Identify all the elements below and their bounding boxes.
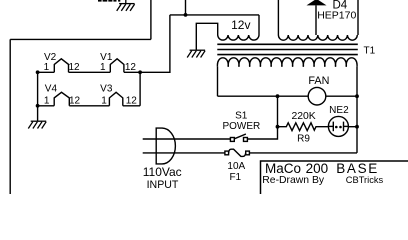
svg-text:V4: V4 [45,84,58,95]
tube heater V3 [109,92,122,106]
wire heater supply horizontal [170,14,259,16]
wire heater top row [38,71,141,73]
junction node at (357,126.7) [355,125,359,129]
wire heater bottom row [38,105,141,107]
svg-text:12: 12 [126,95,138,106]
title box [261,161,408,194]
wire riser to heater right node [140,15,170,72]
wire heater right vertical [139,72,141,106]
svg-text:1: 1 [44,95,50,106]
wire riser to top edge [150,0,152,39]
wire primary right vertical [356,67,358,153]
tube heater V1 [110,59,124,73]
wire fan row right [326,95,357,97]
svg-text:FAN: FAN [308,75,329,87]
ground symbol G3 [187,50,205,57]
svg-text:10A: 10A [227,161,245,172]
svg-text:V3: V3 [100,84,113,95]
svg-text:12v: 12v [231,18,250,32]
wire left vertical bus [9,39,11,194]
wire dropper x277.5 [277,96,279,127]
wire top-left horizontal [10,38,151,40]
svg-text:1: 1 [100,62,106,73]
transformer T1 HV secondary winding [278,0,358,40]
svg-text:POWER: POWER [222,121,260,132]
svg-text:R9: R9 [297,134,310,145]
plug P1 110Vac [156,128,175,164]
svg-text:Re-Drawn By: Re-Drawn By [262,175,325,186]
junction node at (37.6,72.3) [36,70,40,74]
svg-text:INPUT: INPUT [147,179,179,191]
ground symbol G2 [28,121,46,128]
svg-text:S1: S1 [235,110,248,121]
junction node at (185.5,14.9) [184,13,188,17]
svg-text:12: 12 [125,62,137,73]
wire 12v winding left to ground [196,23,217,50]
fuse F1 [143,149,357,156]
tube heater V4 [54,92,69,106]
switch S1 [143,127,278,142]
resistor R9 220K [278,123,329,131]
svg-text:CBTricks: CBTricks [346,175,384,185]
fan motor circle [308,87,326,105]
wire from top at x185.5 [185,0,187,15]
transformer T1 primary winding [217,58,357,67]
svg-text:NE2: NE2 [329,105,349,116]
junction node at (37.6,105.8) [36,104,40,108]
svg-text:HEP170: HEP170 [317,9,356,21]
junction node at (277.5,96.2) [276,94,280,98]
svg-text:220K: 220K [291,111,315,122]
wire primary left riser [217,67,219,96]
tube heater V2 [54,59,68,73]
neon lamp NE2 [328,116,348,136]
svg-text:MaCo200BASE: MaCo200BASE [265,161,379,176]
wire 12v winding right riser [258,15,260,35]
ground symbol G1 top-left [117,0,135,11]
junction node at (140.1,72.3) [138,70,142,74]
wire NE2 right lead [348,126,357,128]
svg-text:12: 12 [69,95,81,106]
transformer T1 12v secondary winding [218,35,259,40]
cut-off text remnant at top edge [98,0,120,2]
diode D4 [315,5,317,35]
svg-text:1: 1 [101,95,107,106]
junction node at (277.5,126.7) [276,125,280,129]
svg-text:T1: T1 [364,46,376,57]
junction node at (357,96.2) [355,94,359,98]
svg-text:12: 12 [68,62,80,73]
svg-text:F1: F1 [229,172,241,183]
wire fan row left [218,95,309,97]
transformer T1 core [217,44,357,54]
wire heater left vertical [37,72,39,121]
svg-text:1: 1 [44,62,50,73]
svg-text:110Vac: 110Vac [143,165,182,179]
